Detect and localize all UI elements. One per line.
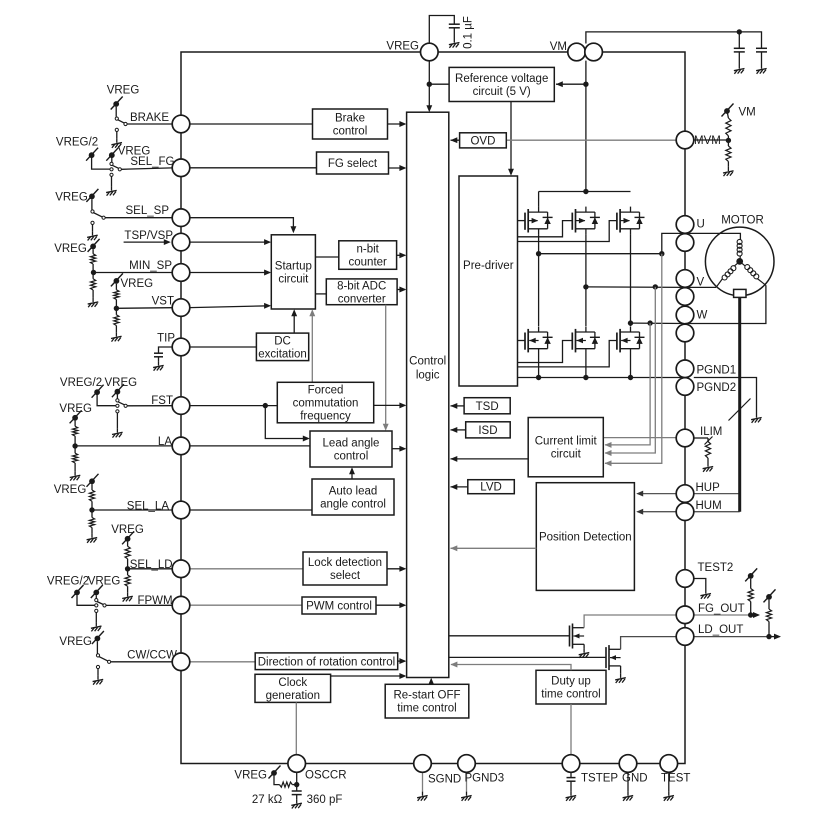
arrow current limit to logic	[450, 456, 528, 462]
wire res to gnd VST	[115, 308, 117, 332]
pin W lower	[676, 324, 694, 342]
supply VREG/2 for FST	[92, 385, 104, 398]
svg-text:SEL_SP: SEL_SP	[126, 205, 170, 217]
ground VM cap2	[756, 65, 767, 74]
wire SGND gnd	[422, 772, 424, 791]
svg-text:TSD: TSD	[476, 401, 499, 413]
pin TEST	[660, 755, 678, 773]
pin VREG	[421, 43, 439, 61]
transistor Q2 high-side V	[572, 207, 600, 235]
svg-text:360 pF: 360 pF	[307, 794, 343, 806]
svg-text:Pre-driver: Pre-driver	[463, 260, 514, 272]
junction FST	[263, 403, 268, 408]
wire CW/CCW to direction	[190, 661, 255, 663]
svg-text:HUP: HUP	[696, 482, 721, 494]
label HUM	[696, 500, 722, 512]
wire LD gate	[449, 656, 606, 658]
wire Q5 gate	[518, 341, 573, 363]
label LD_OUT	[698, 624, 743, 636]
pin HUP	[676, 485, 694, 503]
svg-text:BRAKE: BRAKE	[130, 112, 169, 124]
transistor Q5 low-side V	[572, 327, 600, 355]
pin LA	[172, 437, 190, 455]
pin TSP/VSP	[172, 233, 190, 251]
capacitor VM 1	[734, 48, 745, 52]
ground MIN_SP	[88, 298, 99, 307]
arrow brake control to logic	[388, 121, 407, 127]
junction bus W	[628, 375, 633, 380]
svg-text:VREG: VREG	[55, 192, 88, 204]
capacitor OSCCR	[292, 791, 302, 795]
ground VM cap1	[734, 65, 745, 74]
svg-text:Control: Control	[409, 356, 446, 368]
capacitor 0.1uF	[449, 24, 460, 28]
junction VM-refbox	[583, 82, 588, 87]
block lock detection select	[303, 552, 387, 585]
supply VM for MVM	[722, 104, 734, 117]
IC outline	[181, 52, 685, 764]
svg-text:PGND3: PGND3	[465, 773, 505, 785]
supply VREG for SEL_FG	[106, 148, 118, 161]
pin SEL_LA	[172, 501, 190, 519]
ground PGND	[751, 414, 762, 423]
transistor Q7 FG_OUT	[570, 624, 585, 649]
label VREG FPWM	[88, 576, 121, 588]
ground ILIM	[703, 463, 714, 472]
label TEST	[661, 773, 690, 785]
wire clock gen to OSCCR	[295, 702, 297, 755]
junction SEL_LD	[125, 566, 130, 571]
svg-text:control: control	[334, 451, 369, 463]
wire OSCCR RC	[274, 776, 280, 785]
svg-text:VREG/2: VREG/2	[60, 377, 102, 389]
transistor Q4 low-side U	[525, 327, 553, 355]
wire Q1 gate	[518, 220, 526, 222]
label VREG FST	[105, 377, 138, 389]
arrow n-bit to logic	[397, 252, 407, 258]
label FPWM	[137, 595, 172, 607]
ground FST	[112, 428, 123, 437]
svg-text:Re-start OFF: Re-start OFF	[393, 690, 460, 702]
label HUP	[696, 482, 721, 494]
top drain bus	[539, 191, 631, 193]
supply VREG for LA	[70, 410, 82, 423]
svg-text:LA: LA	[158, 436, 172, 448]
pin VST	[172, 299, 190, 317]
wire VREG-res SEL_LA	[91, 484, 93, 510]
wire Q4 gate	[518, 340, 526, 342]
block lead angle control	[310, 431, 392, 467]
svg-text:VREG: VREG	[59, 403, 92, 415]
svg-text:VREG: VREG	[59, 636, 92, 648]
capacitor TSTEP	[567, 778, 576, 782]
pin TIP	[172, 338, 190, 356]
label VREG LA	[59, 403, 92, 415]
wire SEL_SP to startup	[190, 218, 297, 234]
wire V column lower	[585, 355, 587, 378]
svg-text:VREG: VREG	[54, 243, 87, 255]
pin PGND2	[676, 378, 694, 396]
block auto lead angle control	[312, 479, 394, 515]
wire refbox to predriver	[508, 102, 514, 176]
wire ILIM external	[694, 438, 708, 442]
wire Q7 source gnd	[583, 644, 585, 648]
svg-text:FPWM: FPWM	[137, 595, 172, 607]
pin OSCCR	[288, 755, 306, 773]
wire Q3 gate	[518, 221, 617, 242]
pin VM 1	[568, 43, 586, 61]
pin SEL_FG	[172, 159, 190, 177]
svg-text:commutation: commutation	[293, 398, 359, 410]
wire res to node MIN_SP	[92, 264, 94, 273]
wire node to pin LA	[75, 445, 172, 447]
label W	[697, 310, 708, 322]
svg-text:VREG: VREG	[234, 770, 267, 782]
junction VST	[114, 306, 119, 311]
wire U column lower	[538, 355, 540, 378]
label MOTOR	[721, 215, 764, 227]
label VREG/2 SEL_FG	[56, 137, 98, 149]
wire res gnd SEL_LD	[127, 569, 129, 593]
junction VM caps	[737, 29, 742, 34]
label TSTEP	[581, 773, 618, 785]
switch SEL_FG	[110, 158, 172, 186]
motor circle	[705, 227, 774, 296]
ground Q7	[579, 649, 590, 658]
svg-text:FG select: FG select	[328, 158, 378, 170]
label VREG top	[386, 41, 419, 53]
wire Q8 source gnd	[620, 666, 622, 674]
transistor Q1 high-side U	[525, 207, 553, 235]
svg-text:frequency: frequency	[300, 411, 351, 423]
svg-text:Auto lead: Auto lead	[329, 486, 378, 498]
svg-text:time control: time control	[541, 689, 600, 701]
label VREG SEL_SP	[55, 192, 88, 204]
label VREG SEL_FG	[118, 146, 151, 158]
wire VREG-res-node VST	[115, 284, 117, 309]
block startup circuit	[271, 235, 315, 309]
svg-text:VM: VM	[739, 107, 756, 119]
wire node to pin VST	[116, 307, 172, 310]
switch BRAKE	[115, 107, 172, 139]
switch FST	[116, 395, 172, 429]
svg-text:TEST2: TEST2	[698, 562, 734, 574]
svg-text:circuit: circuit	[551, 449, 582, 461]
pin TSTEP	[562, 755, 580, 773]
ground GND pin	[623, 792, 634, 801]
junction VREG-refbox	[427, 82, 432, 87]
pin HUM	[676, 503, 694, 521]
ground SGND	[417, 792, 428, 801]
wire FST to forced comm	[190, 405, 277, 407]
svg-text:Duty up: Duty up	[551, 676, 591, 688]
svg-text:SEL_LA: SEL_LA	[127, 501, 170, 513]
ground TSTEP	[566, 792, 577, 801]
resistor LA lower	[73, 453, 78, 463]
pin SGND	[414, 755, 432, 773]
arrow restart to logic	[428, 678, 434, 685]
pin BRAKE	[172, 115, 190, 133]
svg-text:FG_OUT: FG_OUT	[698, 603, 745, 615]
wire Q2 gate	[518, 221, 573, 237]
resistor SEL_LD upper	[125, 546, 130, 559]
wire HUM	[636, 509, 740, 515]
resistor MIN_SP lower	[91, 279, 96, 290]
label VREG OSCCR	[234, 770, 267, 782]
block OVD	[460, 133, 507, 148]
pin FG_OUT	[676, 606, 694, 624]
wire W column lower	[630, 355, 632, 378]
svg-text:DC: DC	[274, 335, 291, 347]
block reference voltage circuit	[449, 67, 554, 101]
block control logic	[407, 112, 449, 677]
transistor Q6 low-side W	[617, 327, 645, 355]
motor cable	[738, 295, 741, 512]
pin LD_OUT	[676, 628, 694, 646]
pin PGND1	[676, 360, 694, 378]
svg-text:Current limit: Current limit	[535, 436, 598, 448]
wire U to motor	[685, 233, 740, 240]
label V	[697, 277, 705, 289]
svg-text:Direction of rotation control: Direction of rotation control	[258, 656, 395, 668]
pin SEL_LD	[172, 560, 190, 578]
wire TSTEP cap gnd	[570, 772, 572, 791]
svg-text:V: V	[697, 277, 705, 289]
label VREG VST	[121, 278, 154, 290]
arrow lead angle to logic	[392, 446, 406, 452]
svg-text:27 kΩ: 27 kΩ	[252, 794, 283, 806]
label PGND3	[465, 773, 505, 785]
label GND	[622, 773, 648, 785]
wire VREG/2 branch SEL_FG	[92, 158, 110, 169]
svg-text:SEL_LD: SEL_LD	[130, 559, 173, 571]
arrow PWM to logic	[376, 602, 406, 608]
arrow forced comm to logic	[374, 402, 407, 408]
arrow position to logic	[450, 545, 536, 551]
ground OSCCR	[291, 799, 302, 808]
label LA	[158, 436, 172, 448]
svg-text:U: U	[697, 219, 705, 231]
motor winding U	[737, 239, 742, 261]
resistor SEL_LD lower	[125, 575, 130, 586]
pin MIN_SP	[172, 264, 190, 282]
svg-text:logic: logic	[416, 370, 440, 382]
block re-start OFF time control	[385, 684, 469, 718]
resistor VST lower	[114, 315, 119, 326]
svg-text:Lead angle: Lead angle	[323, 438, 380, 450]
motor winding V	[716, 261, 740, 287]
ground TEST2	[700, 590, 711, 599]
ground SEL_SP	[87, 231, 98, 240]
wire res gnd LA	[74, 446, 76, 471]
svg-text:VST: VST	[152, 296, 174, 308]
junction V sense	[653, 284, 658, 289]
wire SEL_LD to lock detect	[190, 568, 303, 570]
pin V upper	[676, 270, 694, 288]
svg-text:8-bit ADC: 8-bit ADC	[337, 280, 386, 292]
junction bus V	[583, 375, 588, 380]
wire GND gnd	[627, 772, 629, 791]
label VREG SEL_LD	[111, 524, 144, 536]
wire HUP	[636, 491, 740, 497]
block direction of rotation control	[255, 653, 398, 670]
wire ILIM to current limit	[603, 437, 676, 439]
supply VREG for SEL_LA	[87, 474, 99, 487]
junction OSCCR	[294, 782, 299, 787]
junction LD_OUT	[766, 634, 771, 639]
arrow LD_OUT out	[769, 634, 781, 640]
svg-text:converter: converter	[338, 293, 386, 305]
resistor ILIM	[705, 442, 710, 459]
svg-text:circuit: circuit	[278, 273, 309, 285]
svg-text:PGND2: PGND2	[697, 382, 737, 394]
wire TIP cap to gnd	[158, 357, 160, 362]
wire Q6 gate	[518, 341, 617, 367]
motor winding W	[740, 261, 766, 285]
svg-text:LD_OUT: LD_OUT	[698, 624, 743, 636]
wire MIN_SP to startup	[190, 270, 271, 276]
svg-text:generation: generation	[266, 690, 320, 702]
wire ADC to lead angle	[383, 305, 389, 431]
junction FG_OUT	[748, 612, 753, 617]
svg-text:Position Detection: Position Detection	[539, 532, 632, 544]
svg-text:TSTEP: TSTEP	[581, 773, 618, 785]
svg-text:LVD: LVD	[480, 482, 502, 494]
svg-text:PGND1: PGND1	[697, 365, 737, 377]
wire U riser to pin	[662, 233, 685, 253]
svg-text:W: W	[697, 310, 708, 322]
block DC excitation	[256, 333, 308, 361]
wire VREG/2 branch FPWM	[77, 595, 95, 605]
supply VREG/2 for SEL_FG	[86, 148, 98, 161]
arrow FG select to logic	[389, 165, 407, 171]
wire cap gnd OSCCR	[296, 795, 298, 800]
svg-text:VREG/2: VREG/2	[56, 137, 98, 149]
ground PGND3	[461, 792, 472, 801]
resistor OSCCR	[280, 782, 293, 787]
pin CW/CCW	[172, 653, 190, 671]
svg-text:OVD: OVD	[470, 135, 495, 147]
junction MVM divider	[726, 138, 731, 143]
wire U column upper	[538, 192, 540, 207]
junction W sense	[647, 320, 652, 325]
pin U upper	[676, 216, 694, 234]
wire SEL_FG to FG select	[190, 167, 317, 169]
svg-text:VREG: VREG	[121, 278, 154, 290]
pin V lower	[676, 288, 694, 306]
arrow clock gen to logic	[331, 673, 407, 679]
svg-text:TSP/VSP: TSP/VSP	[124, 230, 173, 242]
pin ILIM	[676, 429, 694, 447]
label PGND2	[697, 382, 737, 394]
arrow direction to logic	[398, 658, 407, 664]
switch SEL_SP	[91, 199, 172, 231]
transistor Q8 LD_OUT	[606, 645, 621, 670]
arrow LVD to logic	[450, 484, 468, 490]
arrow TSD to logic	[450, 403, 464, 409]
label MVM	[694, 135, 721, 147]
svg-text:Lock detection: Lock detection	[308, 557, 382, 569]
label FST	[151, 395, 173, 407]
wire duty up to TSTEP	[570, 704, 572, 755]
label VREG SEL_LA	[54, 484, 87, 496]
label VREG/2 FPWM	[47, 576, 89, 588]
resistor MVM upper	[726, 118, 731, 136]
label TIP	[157, 333, 175, 345]
block clock generation	[255, 674, 331, 702]
svg-text:SGND: SGND	[428, 774, 461, 786]
resistor SEL_LA upper	[89, 490, 94, 501]
node W line	[631, 322, 686, 324]
wire LA to lead angle control	[190, 445, 310, 447]
svg-text:OSCCR: OSCCR	[305, 770, 347, 782]
svg-text:0.1 µF: 0.1 µF	[463, 16, 475, 49]
pullup FG_OUT	[745, 568, 757, 615]
block pre-driver	[459, 176, 518, 386]
block n-bit counter	[339, 241, 397, 269]
pin GND	[619, 755, 637, 773]
junction VM bus	[583, 189, 588, 194]
wire TEST2 external	[694, 579, 706, 590]
block TSD	[464, 398, 510, 414]
wire VST to startup	[190, 303, 271, 309]
capacitor VM 2	[756, 48, 767, 52]
svg-text:VREG: VREG	[107, 85, 140, 97]
wire cap1 to gnd	[738, 52, 740, 65]
label VREG/2 FST	[60, 377, 102, 389]
label VREG CW/CCW	[59, 636, 92, 648]
pin VM 2	[585, 43, 603, 61]
ground TIP	[153, 361, 164, 370]
resistor MVM lower	[726, 146, 731, 161]
wire startup to n-bit counter	[315, 256, 338, 258]
ground SEL_LA	[87, 534, 98, 543]
capacitor TIP	[154, 353, 163, 357]
label pre-driver	[463, 260, 514, 272]
svg-text:VM: VM	[550, 41, 567, 53]
motor star point	[736, 258, 743, 265]
wire node pin SEL_LA	[92, 509, 172, 511]
node U line	[539, 253, 662, 255]
resistor MIN_SP upper	[91, 254, 96, 264]
junction MIN_SP	[91, 270, 96, 275]
block position detection	[536, 483, 634, 591]
wire node to pin MIN_SP	[93, 272, 172, 274]
supply VREG/2 for FPWM	[72, 585, 84, 598]
wire V to motor	[685, 286, 716, 288]
label VM top	[550, 41, 567, 53]
wire VREG-res LA	[74, 421, 76, 447]
supply VREG for SEL_LD	[122, 531, 134, 544]
arrow FG_OUT out	[751, 612, 760, 618]
label VREG MIN_SP	[54, 243, 87, 255]
svg-text:VREG: VREG	[111, 524, 144, 536]
variable arrow ILIM	[705, 437, 713, 445]
svg-text:FST: FST	[151, 395, 173, 407]
wire forced comm to startup	[309, 309, 315, 382]
label 360 pF	[307, 794, 343, 806]
ground LA	[70, 471, 81, 480]
block current limit circuit	[528, 418, 603, 477]
wire cap2 to gnd	[761, 52, 763, 65]
supply VREG for FPWM	[91, 585, 103, 598]
label SEL_LD	[130, 559, 173, 571]
supply VREG for SEL_SP	[86, 189, 98, 202]
pin PGND3	[458, 755, 476, 773]
svg-text:VREG/2: VREG/2	[47, 576, 89, 588]
ground VST	[111, 332, 122, 341]
supply VREG for CW/CCW	[92, 631, 104, 644]
